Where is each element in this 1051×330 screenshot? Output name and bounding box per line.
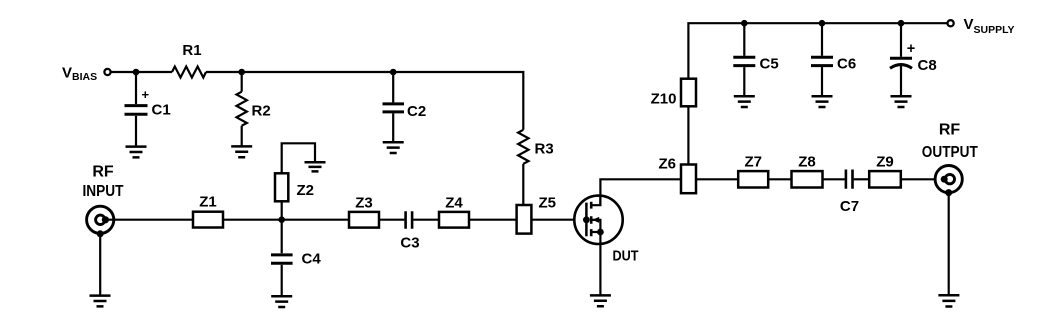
- svg-text:Z4: Z4: [445, 195, 463, 212]
- wire Z4 to Z5: [469, 219, 517, 221]
- wire DUT source to ground: [599, 232, 601, 295]
- ground for Z2: [305, 162, 326, 171]
- wire R1 to bias rail corner and down to R3: [206, 72, 523, 130]
- wire Z2 to ground: [282, 143, 315, 173]
- wire Z1 to Z3: [223, 219, 349, 221]
- svg-text:C1: C1: [152, 102, 171, 119]
- svg-text:Z3: Z3: [355, 195, 373, 212]
- svg-text:C2: C2: [407, 103, 426, 120]
- wire Z7 to Z8: [768, 178, 791, 180]
- svg-text:RF: RF: [939, 122, 961, 139]
- impedance Z4: [439, 195, 469, 228]
- capacitor C2: [383, 72, 427, 142]
- wire C3 to Z4: [413, 219, 439, 221]
- capacitor C8: [890, 23, 937, 96]
- junction C1 tap: [133, 69, 140, 76]
- ground below RF OUTPUT: [938, 295, 959, 306]
- impedance Z10: [651, 79, 696, 108]
- wire C7 to Z9: [854, 178, 870, 180]
- junction node Z2/C4 tap: [278, 216, 285, 223]
- junction C6 tap: [819, 20, 826, 27]
- node VBIAS terminal: [62, 65, 111, 84]
- svg-text:R2: R2: [252, 103, 271, 120]
- connector RF OUTPUT: [935, 166, 962, 197]
- svg-text:Z6: Z6: [658, 156, 676, 173]
- capacitor C7: [840, 170, 859, 216]
- svg-text:C8: C8: [918, 57, 937, 74]
- impedance Z3: [349, 195, 379, 228]
- svg-text:C5: C5: [760, 56, 779, 73]
- ground below C4: [271, 296, 292, 307]
- wire Z10 to supply rail: [688, 23, 947, 78]
- svg-text:INPUT: INPUT: [83, 183, 124, 200]
- svg-text:+: +: [907, 41, 915, 57]
- node VSUPPLY terminal: [948, 16, 1015, 36]
- wire Z9 to output connector: [901, 178, 945, 180]
- capacitor C5: [733, 23, 778, 96]
- wire Z3 to C3: [379, 219, 404, 221]
- svg-text:VBIAS: VBIAS: [62, 65, 97, 84]
- svg-text:Z10: Z10: [651, 91, 677, 108]
- capacitor C6: [811, 23, 856, 96]
- svg-text:C3: C3: [400, 235, 419, 252]
- capacitor C4: [271, 220, 321, 296]
- resistor R1: [172, 42, 206, 78]
- impedance Z8: [792, 154, 823, 188]
- svg-text:VSUPPLY: VSUPPLY: [964, 16, 1015, 36]
- svg-text:Z7: Z7: [744, 154, 762, 171]
- transistor DUT: [574, 196, 638, 265]
- svg-text:Z2: Z2: [297, 182, 315, 199]
- ground below RF INPUT: [90, 296, 111, 307]
- svg-text:Z9: Z9: [876, 154, 894, 171]
- impedance Z5: [517, 195, 556, 234]
- wire DUT drain to Z6: [600, 179, 681, 205]
- svg-text:C7: C7: [840, 198, 859, 215]
- capacitor C1: [125, 72, 171, 146]
- resistor R2: [237, 72, 271, 146]
- wire VBIAS to R1: [111, 71, 172, 73]
- label RF OUTPUT: [922, 122, 978, 162]
- svg-text:+: +: [142, 87, 150, 102]
- wire Z5 to DUT gate: [531, 219, 583, 221]
- junction C2 tap: [390, 69, 397, 76]
- impedance Z1: [193, 194, 223, 228]
- connector RF INPUT: [87, 206, 114, 237]
- svg-text:R1: R1: [182, 42, 201, 59]
- capacitor C3: [400, 211, 419, 251]
- ground below C2: [383, 142, 404, 153]
- svg-text:RF: RF: [92, 164, 114, 181]
- svg-text:C6: C6: [837, 56, 856, 73]
- wire Z6 to Z7: [696, 178, 738, 180]
- junction C5 tap: [741, 20, 748, 27]
- svg-text:C4: C4: [302, 251, 322, 268]
- wire Z6 to Z10: [687, 106, 689, 164]
- wire output shield to ground: [948, 193, 950, 295]
- wire input connector to Z1: [105, 219, 193, 221]
- impedance Z6: [658, 156, 696, 194]
- svg-text:Z1: Z1: [199, 194, 217, 211]
- ground below DUT: [590, 295, 611, 306]
- junction R2 tap: [238, 69, 245, 76]
- ground below C1: [126, 147, 147, 158]
- ground below C5: [734, 96, 755, 107]
- svg-text:R3: R3: [535, 141, 554, 158]
- ground below C6: [812, 96, 833, 107]
- svg-text:Z8: Z8: [798, 154, 816, 171]
- svg-text:Z5: Z5: [539, 195, 557, 212]
- svg-text:DUT: DUT: [613, 248, 639, 265]
- wire input shield to ground: [99, 234, 101, 295]
- junction C8 tap: [898, 20, 905, 27]
- impedance Z9: [869, 154, 901, 188]
- resistor R3: [518, 130, 554, 205]
- impedance Z2: [275, 173, 314, 219]
- impedance Z7: [738, 154, 768, 188]
- ground below C8: [891, 96, 912, 107]
- wire Z8 to C7: [823, 178, 845, 180]
- label RF INPUT: [83, 164, 124, 201]
- ground below R2: [231, 146, 252, 157]
- svg-text:OUTPUT: OUTPUT: [922, 144, 978, 161]
